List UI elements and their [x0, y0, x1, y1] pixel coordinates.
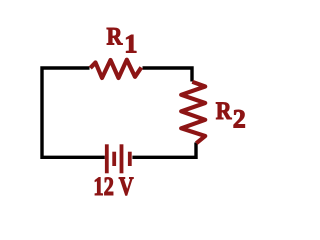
resistor R2 (zigzag on right wire)	[181, 82, 205, 143]
svg-text:R: R	[107, 22, 123, 51]
label R2: subscript 2	[233, 105, 246, 134]
label R2: letter R	[216, 96, 232, 125]
label 12 V (battery value)	[93, 172, 133, 201]
svg-text:12 V: 12 V	[93, 172, 133, 201]
label R1: letter R	[107, 22, 123, 51]
battery 12V: plate long (right-center)	[120, 144, 124, 173]
resistor R1 (zigzag on top wire)	[90, 60, 141, 78]
wire: top-right segment down to R2 top stub	[143, 68, 193, 82]
label R1: subscript 1	[124, 30, 137, 59]
wire: R2 bottom stub + bottom-right segment to battery	[132, 143, 196, 158]
svg-text:R: R	[216, 96, 232, 125]
battery 12V: plate long (left)	[105, 144, 109, 173]
svg-text:2: 2	[233, 105, 246, 134]
svg-text:1: 1	[124, 30, 137, 59]
wire: left side + top-left segment (top-left corner loop)	[42, 68, 105, 157]
battery 12V: plate short	[112, 152, 116, 166]
battery 12V: plate short (right)	[128, 152, 132, 166]
